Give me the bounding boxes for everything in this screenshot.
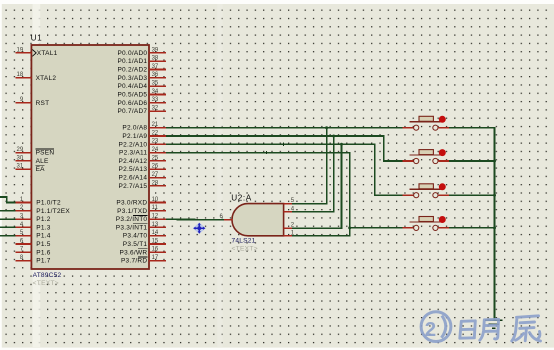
svg-text:P0.0/AD0: P0.0/AD0 — [117, 50, 147, 57]
pin 9 (RST) — [16, 97, 50, 107]
svg-text:P1.7: P1.7 — [36, 258, 51, 265]
svg-text:RST: RST — [36, 100, 50, 107]
svg-text:AT89C52: AT89C52 — [33, 272, 62, 279]
wire P2.2 horizontal — [166, 144, 403, 195]
pin 13 (P3.3/INT1) — [116, 222, 166, 232]
wire — [0, 218, 16, 220]
wire branch to gate pin 5 — [292, 128, 327, 204]
svg-text:P0.6/AD6: P0.6/AD6 — [117, 100, 147, 107]
svg-text:22: 22 — [152, 130, 159, 136]
pin 32 (P0.7/AD7) — [117, 106, 165, 116]
svg-text:P0.4/AD4: P0.4/AD4 — [117, 83, 147, 90]
svg-text:32: 32 — [152, 106, 159, 112]
svg-text:P1.1/T2EX: P1.1/T2EX — [36, 208, 70, 215]
svg-text:U1: U1 — [31, 33, 43, 42]
op-amp style AND gate U2:A (74LS21, mirrored) — [232, 204, 284, 236]
pin 28 (P2.7/A15) — [119, 180, 166, 190]
svg-text:XTAL2: XTAL2 — [36, 75, 57, 82]
pin 33 (P0.6/AD6) — [117, 97, 165, 107]
pin 10 (P3.0/RXD) — [116, 197, 165, 207]
pin 38 (P0.1/AD1) — [117, 56, 165, 66]
svg-text:P2.3/A11: P2.3/A11 — [119, 150, 147, 157]
svg-text:29: 29 — [17, 147, 24, 153]
svg-text:28: 28 — [152, 180, 159, 186]
wire button to rail — [449, 227, 495, 229]
pin 12 (P3.2/INT0) — [116, 214, 166, 224]
svg-text:P0.1/AD1: P0.1/AD1 — [117, 58, 147, 65]
svg-text:P2.5/A13: P2.5/A13 — [119, 166, 148, 173]
pin 6 (P1.5) — [16, 238, 51, 248]
pin 2 (P1.1/T2EX) — [16, 205, 71, 215]
svg-text:P2.1/A9: P2.1/A9 — [122, 133, 147, 140]
push button K2 — [403, 149, 449, 163]
junction dot — [493, 160, 496, 163]
svg-text:25: 25 — [152, 155, 159, 161]
pin 30 (ALE) — [16, 155, 49, 165]
watermark logo circle — [421, 312, 451, 342]
blue origin marker — [193, 222, 206, 234]
gate input pin 5 — [284, 198, 295, 204]
pin 3 (P1.2) — [16, 214, 51, 224]
svg-text:P3.6/WR: P3.6/WR — [120, 249, 148, 256]
wire button to rail — [449, 194, 495, 196]
watermark character chen — [512, 316, 541, 341]
svg-text:11: 11 — [152, 205, 159, 211]
svg-text:36: 36 — [152, 72, 159, 78]
wire — [0, 197, 16, 203]
svg-text:P0.3/AD3: P0.3/AD3 — [117, 75, 147, 82]
pin 27 (P2.6/A14) — [119, 172, 166, 182]
svg-text:18: 18 — [17, 72, 24, 78]
pin 37 (P0.2/AD2) — [117, 64, 165, 74]
gate input pin 4 — [284, 207, 295, 213]
svg-text:ALE: ALE — [36, 158, 49, 165]
svg-text:27: 27 — [152, 172, 159, 178]
svg-text:19: 19 — [17, 47, 24, 53]
wire — [0, 226, 16, 228]
pin 25 (P2.4/A12) — [119, 155, 166, 165]
pin 22 (P2.1/A9) — [122, 130, 165, 140]
svg-text:P2.4/A12: P2.4/A12 — [119, 158, 148, 165]
svg-text:33: 33 — [152, 97, 159, 103]
svg-text:10: 10 — [152, 197, 159, 203]
pin 31 (EA) — [16, 164, 46, 174]
pin 23 (P2.2/A10) — [119, 139, 166, 149]
svg-text:13: 13 — [152, 222, 159, 228]
svg-text:P1.6: P1.6 — [36, 249, 51, 256]
svg-text:38: 38 — [152, 56, 159, 62]
svg-text:<TEXT>: <TEXT> — [33, 280, 59, 287]
gate input pin 2 — [284, 223, 295, 229]
svg-text:P0.5/AD5: P0.5/AD5 — [117, 92, 147, 99]
junction dot — [493, 194, 496, 197]
svg-text:P3.7/RD: P3.7/RD — [121, 258, 147, 265]
wire — [0, 210, 16, 212]
gate input pin 1 — [284, 230, 295, 236]
wire button to rail — [449, 160, 495, 162]
svg-text:15: 15 — [152, 238, 159, 244]
svg-text:P2.6/A14: P2.6/A14 — [119, 175, 148, 182]
pin 36 (P0.3/AD3) — [117, 72, 165, 82]
svg-text:23: 23 — [152, 139, 159, 145]
svg-text:14: 14 — [152, 230, 159, 236]
wire P2.0 to button K1 — [166, 127, 413, 129]
svg-text:31: 31 — [17, 164, 24, 170]
wire segment tick — [282, 143, 284, 146]
pin 1 (P1.0/T2) — [16, 197, 61, 207]
svg-text:P1.5: P1.5 — [36, 241, 51, 248]
svg-text:EA: EA — [36, 166, 46, 173]
pin 35 (P0.4/AD4) — [117, 81, 165, 91]
pin 14 (P3.4/T0) — [123, 230, 166, 240]
wire branch to button K4 — [350, 227, 403, 229]
wire P2.3 horizontal — [166, 153, 350, 236]
pin 34 (P0.5/AD5) — [117, 89, 165, 99]
wire branch to gate pin 2 — [292, 144, 342, 228]
svg-text:P1.0/T2: P1.0/T2 — [36, 200, 61, 207]
svg-text:26: 26 — [152, 164, 159, 170]
watermark character ri — [460, 321, 476, 338]
svg-text:PSEN: PSEN — [36, 150, 55, 157]
pin 8 (P1.7) — [16, 255, 51, 265]
microcontroller U1 body — [31, 45, 149, 269]
svg-text:P3.4/T0: P3.4/T0 — [123, 233, 148, 240]
wire branch to gate pin 4 — [292, 136, 334, 212]
wire P3.2 to U2:A output — [166, 218, 224, 220]
pin 5 (P1.4) — [16, 230, 51, 240]
svg-text:P2.2/A10: P2.2/A10 — [119, 141, 148, 148]
pin 18 (XTAL2) — [16, 72, 57, 82]
svg-text:P0.2/AD2: P0.2/AD2 — [117, 67, 147, 74]
svg-text:P1.3: P1.3 — [36, 224, 51, 231]
pin 17 (P3.7/RD) — [121, 255, 166, 265]
svg-text:2: 2 — [425, 318, 436, 341]
svg-text:P0.7/AD7: P0.7/AD7 — [117, 108, 147, 115]
pin 7 (P1.6) — [16, 247, 51, 257]
junction dot — [340, 143, 343, 146]
svg-text:P1.2: P1.2 — [36, 216, 51, 223]
junction dot — [332, 135, 335, 138]
ground symbol — [485, 320, 502, 328]
pin 4 (P1.3) — [16, 222, 51, 232]
svg-text:U2:A: U2:A — [231, 194, 252, 203]
wire P2.1 horizontal — [166, 136, 403, 161]
svg-text:24: 24 — [152, 147, 159, 153]
svg-text:P2.7/A15: P2.7/A15 — [119, 183, 148, 190]
wire — [0, 235, 16, 237]
svg-text:74LS21: 74LS21 — [232, 237, 256, 244]
push button K4 — [403, 216, 449, 230]
svg-text:34: 34 — [152, 89, 159, 95]
svg-text:XTAL1: XTAL1 — [37, 50, 58, 57]
junction dot — [325, 126, 328, 129]
svg-text:17: 17 — [152, 255, 159, 261]
push button K3 — [403, 183, 449, 197]
svg-text:P3.2/INT0: P3.2/INT0 — [116, 216, 148, 223]
svg-text:P3.1/TXD: P3.1/TXD — [117, 208, 147, 215]
svg-text:<TEXT>: <TEXT> — [232, 246, 258, 253]
svg-text:37: 37 — [152, 64, 159, 70]
svg-text:21: 21 — [152, 122, 159, 128]
svg-text:12: 12 — [152, 214, 159, 220]
wire segment tick — [266, 151, 268, 154]
svg-text:30: 30 — [17, 155, 24, 161]
pin 15 (P3.5/T1) — [123, 238, 166, 248]
pin 39 (P0.0/AD0) — [117, 47, 165, 57]
push button K1 — [403, 116, 449, 131]
svg-text:39: 39 — [152, 47, 159, 53]
svg-text:35: 35 — [152, 81, 159, 87]
pin 26 (P2.5/A13) — [119, 164, 166, 174]
svg-text:P3.3/INT1: P3.3/INT1 — [116, 224, 148, 231]
svg-text:P1.4: P1.4 — [36, 233, 51, 240]
svg-text:16: 16 — [152, 247, 159, 253]
svg-text:P3.5/T1: P3.5/T1 — [123, 241, 148, 248]
gate output pin 6 — [219, 214, 232, 220]
junction dot — [493, 226, 496, 229]
pin 21 (P2.0/A8) — [122, 122, 165, 132]
pin 29 (PSEN) — [16, 147, 55, 157]
pin 24 (P2.3/A11) — [119, 147, 166, 157]
pin 16 (P3.6/WR) — [120, 247, 166, 257]
junction dot — [348, 226, 351, 229]
svg-text:P2.0/A8: P2.0/A8 — [122, 125, 147, 132]
svg-text:P3.0/RXD: P3.0/RXD — [116, 200, 147, 207]
pin 19 (XTAL1) — [16, 47, 58, 57]
watermark character yue — [480, 319, 499, 340]
pin 11 (P3.1/TXD) — [117, 205, 166, 215]
wire button K1 to rail — [449, 128, 495, 320]
